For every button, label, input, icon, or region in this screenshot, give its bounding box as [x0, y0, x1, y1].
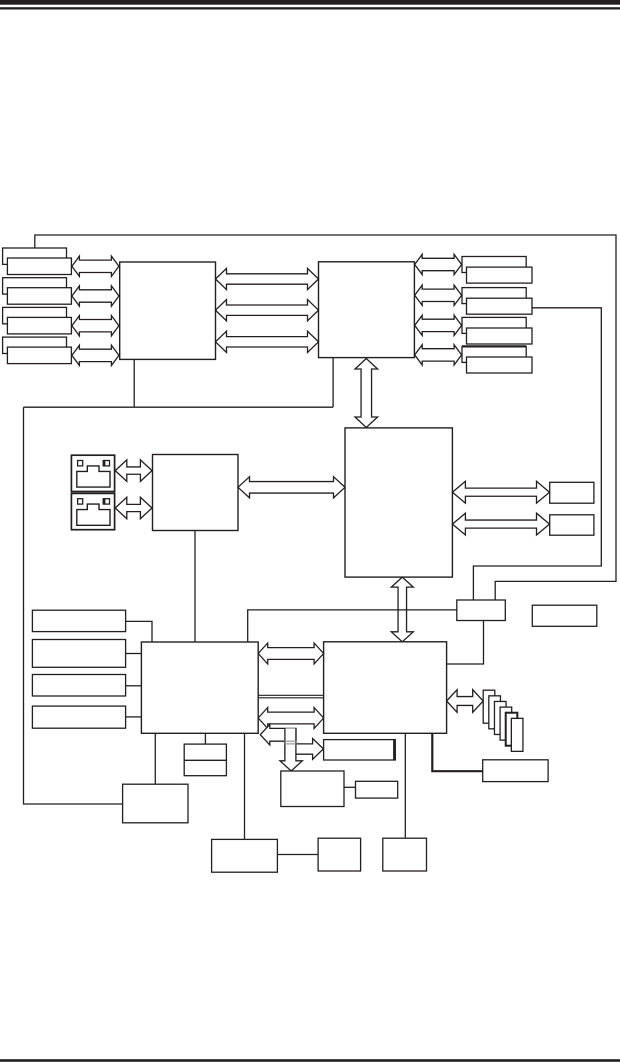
- peripheral box L1: [32, 610, 125, 631]
- box usb header right edge accent: [393, 740, 396, 760]
- box top-right standalone: [532, 605, 597, 626]
- management controller box (BMC): [457, 600, 506, 621]
- southbridge block right: [324, 642, 447, 734]
- wire periphL2 stub: [126, 653, 142, 655]
- LAN port jack 2 (RJ45): [71, 493, 114, 529]
- arrow LAN-chipset: [238, 477, 345, 498]
- arrow southbridge-slots: [447, 690, 484, 713]
- arrow CPU2-chipset: [355, 359, 378, 428]
- wire boxA drop: [244, 733, 246, 839]
- chipset block (center hub): [345, 428, 452, 577]
- wire DIMM line right: [473, 308, 601, 600]
- memory bank L2 back slot: [3, 278, 67, 294]
- wire BMC drop: [447, 621, 484, 665]
- LAN controller block: [153, 455, 239, 531]
- box sata: [483, 760, 548, 782]
- wire left frame down: [24, 407, 123, 804]
- memory bank R4 back slot: [462, 346, 526, 362]
- memory bank L4 front slot: [7, 347, 71, 364]
- cpu block U1 (left): [120, 262, 216, 359]
- box firmware two-cell: [184, 744, 226, 776]
- box bottom A: [212, 839, 278, 872]
- memory bank L3 back slot: [3, 307, 67, 323]
- box bottom B: [318, 838, 361, 871]
- arrow CPU1-memL1: [72, 256, 119, 276]
- box usb small: [356, 781, 398, 798]
- arrow chipset-southbridge: [391, 577, 413, 642]
- arrow CPU2-memR1: [415, 254, 462, 274]
- memory bank L4 back slot: [3, 337, 67, 353]
- arrow jack1-LAN: [115, 460, 152, 482]
- wire periphL3 stub: [126, 685, 142, 687]
- header rule line: [0, 7, 620, 9]
- arrow CPU2-memR4: [415, 345, 462, 365]
- wire BMC left run: [248, 610, 457, 642]
- arrow ioblock-southbridge upper: [258, 643, 323, 664]
- memory bank R3 front slot: [467, 328, 533, 344]
- arrow CPU1-memL3: [72, 316, 119, 336]
- memory bank L3 front slot: [7, 317, 71, 334]
- box lower-left: [123, 784, 188, 823]
- box usb ports: [281, 771, 344, 807]
- header top black bar: [0, 0, 620, 5]
- arrow CPU1-CPU2 link2: [216, 300, 319, 321]
- wire CPU bus rail left: [133, 359, 135, 407]
- arrow ioblock-southbridge lower: [258, 708, 323, 729]
- LAN port jack 1 (RJ45): [71, 455, 114, 491]
- expansion slot stack (6 slots): [483, 690, 495, 723]
- memory bank R3 back slot: [462, 317, 526, 333]
- arrow CPU1-CPU2 link1: [216, 268, 319, 289]
- box bottom C: [383, 838, 427, 871]
- arrow CPU2-memR2: [415, 285, 462, 305]
- wire twocell drop: [204, 733, 206, 744]
- wire boxA-boxB link: [277, 854, 318, 856]
- arrow CPU1-memL4: [72, 345, 119, 365]
- wire rail horizontal: [24, 406, 334, 408]
- arrow usb left head: [260, 724, 296, 745]
- memory bank L2 front slot: [7, 288, 71, 305]
- arrow usb down branch: [280, 728, 302, 771]
- wire outer frame top-right: [35, 235, 616, 600]
- arrow jack2-LAN: [115, 497, 152, 519]
- memory bank L1 front slot: [7, 258, 71, 275]
- peripheral box L2: [32, 640, 125, 668]
- peripheral box L3: [32, 675, 125, 697]
- port box R2: [550, 515, 594, 535]
- memory bank R2 front slot: [467, 298, 533, 314]
- memory bank R1 front slot: [467, 267, 533, 283]
- memory bank R2 back slot: [462, 288, 526, 304]
- wire periphL1 elbow: [126, 621, 152, 642]
- wire thick elbow to sata box: [432, 733, 482, 771]
- bus line ioblock-southbridge: [258, 694, 323, 696]
- wire CPU2 drop: [332, 358, 334, 408]
- footer rule line: [0, 1059, 620, 1062]
- peripheral box L4: [32, 706, 125, 728]
- wire usb link: [344, 786, 356, 788]
- wire usb crossing shadow b: [284, 743, 296, 745]
- memory bank R4 top edge accent: [462, 345, 526, 347]
- wire LAN drop: [194, 531, 196, 642]
- arrow chipset-portR2: [452, 513, 549, 535]
- wire boxL drop: [154, 733, 156, 784]
- cpu block U2 (right): [319, 262, 415, 358]
- memory bank R1 back slot: [462, 257, 526, 273]
- memory bank L1 back slot: [3, 248, 67, 264]
- port box R1: [550, 482, 594, 503]
- memory bank R4 front slot: [467, 357, 533, 373]
- arrow CPU1-memL2: [72, 286, 119, 306]
- box usb header (thick right edge): [324, 740, 396, 760]
- arrow usb right head: [285, 739, 323, 760]
- wire periphL4 stub: [126, 716, 142, 718]
- io block left: [141, 642, 258, 733]
- arrow CPU2-memR3: [415, 315, 462, 335]
- wire usb crossing shadow a: [284, 740, 296, 742]
- box firmware divider: [184, 759, 226, 761]
- arrow chipset-portR1: [452, 481, 549, 503]
- arrow CPU1-CPU2 link3: [216, 331, 319, 352]
- wire boxC drop: [404, 733, 406, 838]
